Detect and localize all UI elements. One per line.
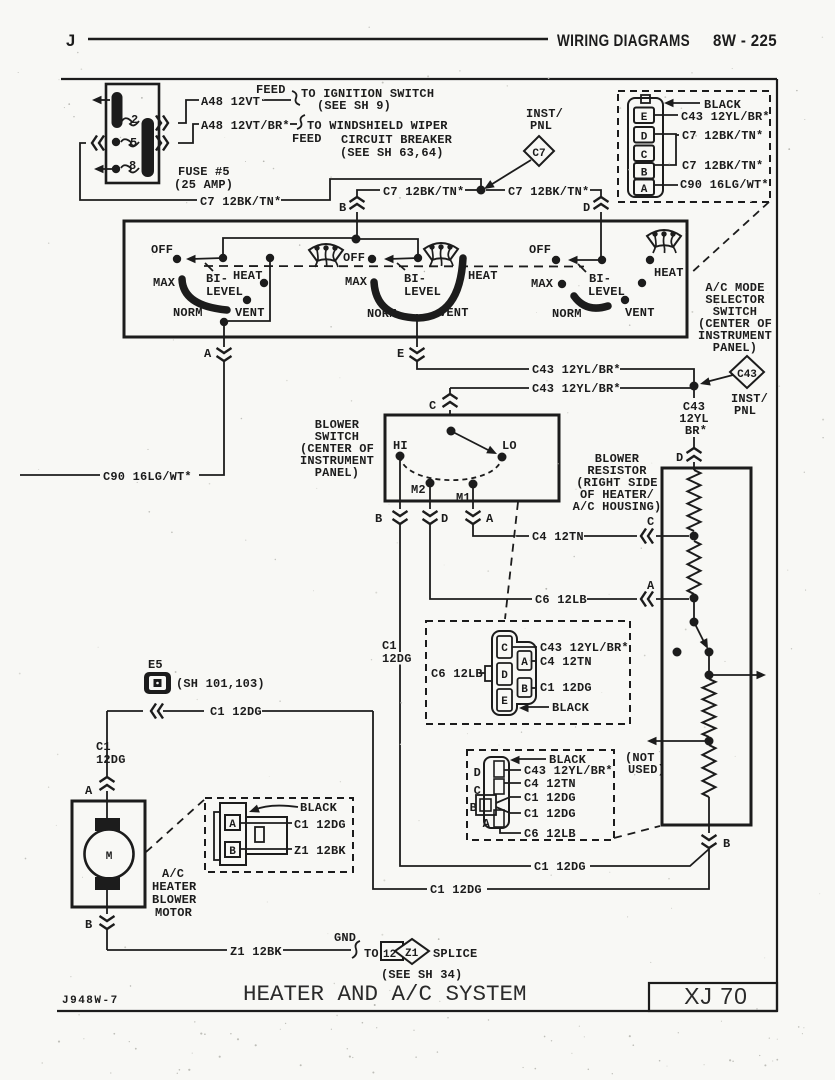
svg-text:8: 8 xyxy=(129,159,136,173)
wire C43 to D chevron xyxy=(693,437,695,449)
connector chevrons B (motor) xyxy=(100,916,115,929)
label B (motor) xyxy=(85,918,92,932)
sw1 label NORM xyxy=(173,306,203,320)
drawing number J948W-7 xyxy=(62,995,119,1007)
sw1 second contact dot xyxy=(266,254,274,262)
label C1 12DG (lower run) xyxy=(430,883,482,897)
svg-text:BI-: BI- xyxy=(206,272,228,286)
sw3 wiper blade arrow xyxy=(568,256,602,272)
resistor element 2 xyxy=(688,541,701,594)
svg-text:BI-: BI- xyxy=(404,272,426,286)
sw3 VENT contact dot xyxy=(621,296,629,304)
lead + label C1 12DG (box2 upper) xyxy=(496,791,576,805)
sw1 VENT contact dot xyxy=(243,296,251,304)
sw1 label OFF xyxy=(151,243,173,257)
resistor not-used contact dot xyxy=(673,648,682,657)
svg-text:D: D xyxy=(501,670,508,682)
svg-text:C7 12BK/TN*: C7 12BK/TN* xyxy=(200,195,281,209)
wire C90 left run xyxy=(20,474,100,476)
dashed wiper travel line xyxy=(204,265,584,268)
header page number 8W - 225 xyxy=(713,32,777,50)
label C90 16LG/WT* xyxy=(103,470,192,484)
svg-text:C: C xyxy=(641,150,648,162)
svg-text:C1: C1 xyxy=(96,740,111,754)
arrow HI tap out right xyxy=(709,671,766,679)
blower switch label LO xyxy=(502,439,517,453)
svg-text:FUSE #5: FUSE #5 xyxy=(178,165,230,179)
fuse connector chevrons pin 5 left xyxy=(92,136,104,151)
svg-text:C90 16LG/WT*: C90 16LG/WT* xyxy=(680,178,769,192)
lead + label C1 12DG (motor A) xyxy=(240,818,346,832)
sw3 wiper arc NORM xyxy=(574,296,608,308)
brace to wiper breaker xyxy=(297,115,305,129)
sw3 label HEAT xyxy=(654,266,684,280)
blower switch wiper arrow to LO xyxy=(451,431,499,458)
label C1 12DG (motor vertical) xyxy=(96,740,126,767)
label SPLICE xyxy=(433,947,477,961)
label BLACK (motor connector) xyxy=(248,801,338,816)
label A48 12VT xyxy=(201,95,260,109)
svg-text:MAX: MAX xyxy=(345,275,368,289)
wire C corner to blower switch xyxy=(449,388,451,394)
svg-text:C7 12BK/TN*: C7 12BK/TN* xyxy=(383,185,464,199)
label C7 12BK/TN* (B branch) xyxy=(383,185,464,199)
lead + label C1 12DG (box1) xyxy=(531,681,592,695)
svg-text:C1 12DG: C1 12DG xyxy=(540,681,592,695)
svg-text:HEAT: HEAT xyxy=(233,269,263,283)
motor brush top xyxy=(95,818,120,831)
resistor switch dot upper xyxy=(690,618,699,627)
blower switch M1 dot xyxy=(469,480,478,489)
A/C mode selector switch panel box xyxy=(124,221,687,337)
svg-text:TO: TO xyxy=(364,947,379,961)
lead + label C6 12LB (left) xyxy=(431,667,485,681)
blower connector body xyxy=(492,631,536,715)
vent door symbol middle xyxy=(424,243,458,266)
svg-text:C1 12DG: C1 12DG xyxy=(294,818,346,832)
label C7 12BK/TN* (left) xyxy=(200,195,281,209)
blower switch common dot xyxy=(447,427,456,436)
brace to ignition switch xyxy=(292,91,300,105)
blower resistor box xyxy=(662,468,751,825)
wire resistor B to upper C1 run xyxy=(590,849,709,866)
resistor element 4 xyxy=(703,745,716,797)
connector cell C xyxy=(634,146,654,163)
svg-text:D: D xyxy=(441,512,448,526)
svg-text:(SH 101,103): (SH 101,103) xyxy=(176,677,265,691)
wire D into resistor box xyxy=(693,462,695,470)
lead + label C90 16LG/WT* (cell A) xyxy=(654,178,769,192)
connector cell A xyxy=(634,180,654,197)
label CIRCUIT BREAKER xyxy=(341,133,453,147)
svg-text:5: 5 xyxy=(130,136,137,150)
svg-text:C43 12YL/BR*: C43 12YL/BR* xyxy=(532,363,621,377)
svg-text:BLOWER: BLOWER xyxy=(152,893,197,907)
sw1 OFF contact dot xyxy=(173,255,181,263)
sw2 pivot dot xyxy=(414,254,422,262)
label D (C7 branch) xyxy=(583,201,590,215)
resistor connector cell D xyxy=(474,761,504,780)
lead + label C43 12YL/BR* (box1) xyxy=(512,641,629,655)
brace splice xyxy=(352,941,360,958)
splice box 12 xyxy=(381,942,403,960)
svg-text:Z1 12BK: Z1 12BK xyxy=(230,945,282,959)
fuse terminal dot pin 8 xyxy=(112,165,120,173)
svg-text:MAX: MAX xyxy=(153,276,176,290)
label A/C MODE SELECTOR SWITCH xyxy=(698,281,772,355)
svg-text:B: B xyxy=(229,846,236,858)
label C4 12TN xyxy=(532,530,584,544)
dashed detail box instrument panel connector xyxy=(618,91,770,202)
svg-text:LO: LO xyxy=(502,439,517,453)
svg-text:MOTOR: MOTOR xyxy=(155,906,193,920)
label A (resistor) xyxy=(647,579,655,593)
junction dot C43 xyxy=(690,382,699,391)
svg-text:FEED: FEED xyxy=(256,83,286,97)
wire M2 down (D) xyxy=(429,487,431,509)
blower connector cell A xyxy=(518,651,532,670)
svg-text:NORM: NORM xyxy=(552,307,582,321)
resistor connector cell C xyxy=(474,779,504,798)
label C1 12DG (upper run) xyxy=(534,860,586,874)
bracket cells D and B xyxy=(654,134,676,165)
connector chevrons C (blower) xyxy=(443,394,458,407)
svg-text:C: C xyxy=(429,399,436,413)
sw1 wire contact loop xyxy=(228,260,270,321)
sw3 label OFF xyxy=(529,243,551,257)
motor body circle xyxy=(85,830,134,879)
dashed detail box blower switch connector xyxy=(426,621,630,724)
motor connector cell A xyxy=(225,815,240,831)
svg-text:A48 12VT: A48 12VT xyxy=(201,95,260,109)
connector chevrons C6 (resistor A) xyxy=(641,592,653,607)
svg-text:12: 12 xyxy=(383,949,396,961)
sw3 label NORM xyxy=(552,307,582,321)
label TO WINDSHIELD WIPER xyxy=(307,119,448,133)
svg-text:12DG: 12DG xyxy=(382,652,412,666)
svg-text:C1 12DG: C1 12DG xyxy=(210,705,262,719)
arrow C7 diamond to junction xyxy=(482,160,531,193)
wire C7 fuse to label run xyxy=(80,143,197,200)
svg-text:A: A xyxy=(641,184,648,196)
label TO IGNITION SWITCH xyxy=(301,87,434,101)
wire blade to HI tap xyxy=(708,656,710,671)
label Z1 12BK (run) xyxy=(230,945,282,959)
fuse element pin 2 xyxy=(122,113,139,127)
wire upper C1 run to blower B xyxy=(400,525,531,866)
sw2 bus junction dot xyxy=(352,235,361,244)
wire E to C43 line1 xyxy=(417,362,694,382)
svg-text:C1 12DG: C1 12DG xyxy=(524,791,576,805)
motor connector plug body xyxy=(246,817,287,854)
wire E5 corner down to motor xyxy=(106,711,108,776)
svg-text:NORM: NORM xyxy=(367,307,397,321)
resistor tap dot A xyxy=(690,594,699,603)
svg-text:C1 12DG: C1 12DG xyxy=(534,860,586,874)
connector chevrons C1 (E5) xyxy=(151,704,163,719)
sw1 label BI-LEVEL xyxy=(206,272,243,299)
svg-text:PANEL): PANEL) xyxy=(315,466,359,480)
svg-text:HEATER AND A/C SYSTEM: HEATER AND A/C SYSTEM xyxy=(243,981,527,1007)
sw1 pivot dot xyxy=(219,254,227,262)
svg-text:(25 AMP): (25 AMP) xyxy=(174,178,233,192)
svg-text:(SEE SH 34): (SEE SH 34) xyxy=(381,968,462,982)
label B (resistor exit) xyxy=(723,837,730,851)
label C7 12BK/TN* (cell D) xyxy=(676,129,763,143)
connector chevrons D (blower) xyxy=(423,511,438,524)
connector cell B xyxy=(634,163,654,180)
svg-text:BR*: BR* xyxy=(685,424,707,438)
svg-text:A: A xyxy=(229,819,236,831)
label (NOT USED) xyxy=(625,751,665,777)
svg-text:C43 12YL/BR*: C43 12YL/BR* xyxy=(532,382,621,396)
label A48 12VT/BR* xyxy=(201,119,290,133)
motor wire top xyxy=(106,801,108,820)
wire C43 junction down xyxy=(693,390,695,398)
svg-text:C1 12DG: C1 12DG xyxy=(524,807,576,821)
svg-text:WIRING DIAGRAMS: WIRING DIAGRAMS xyxy=(557,32,690,50)
blower switch LO dot xyxy=(498,453,507,462)
label E5 xyxy=(148,658,163,672)
svg-text:C: C xyxy=(501,643,508,655)
ground E5 symbol xyxy=(144,672,171,694)
motor label M xyxy=(106,851,113,863)
wire B branch corner xyxy=(357,190,380,198)
wire tap A down xyxy=(693,602,695,618)
sw1 wire pivot to bus xyxy=(223,238,356,256)
lead + label C4 12TN (box2) xyxy=(504,777,576,791)
lead + label C43 12YL/BR* (box2) xyxy=(504,764,613,778)
sw1 label MAX xyxy=(153,276,176,290)
wire resistor B to lower C1 run xyxy=(487,849,709,889)
label C6 12LB xyxy=(535,593,587,607)
label A/C HEATER BLOWER MOTOR xyxy=(152,867,197,920)
resistor connector cell A xyxy=(483,810,504,831)
svg-text:A/C HOUSING): A/C HOUSING) xyxy=(573,500,662,514)
label BLACK (box2) xyxy=(510,753,587,767)
wire E5 run right xyxy=(107,710,204,712)
header rule xyxy=(88,38,548,41)
motor connector body xyxy=(214,803,246,865)
label FEED (ignition) xyxy=(256,83,286,97)
connector symbol C43 diamond xyxy=(730,356,764,388)
sw3 OFF contact dot xyxy=(552,256,560,264)
svg-text:VENT: VENT xyxy=(625,306,655,320)
svg-text:FEED: FEED xyxy=(292,132,322,146)
svg-text:A48 12VT/BR*: A48 12VT/BR* xyxy=(201,119,290,133)
svg-text:C: C xyxy=(647,515,654,529)
label C (resistor) xyxy=(647,515,654,529)
dashed leader blower switch to connector detail xyxy=(505,502,518,619)
blower connector cell C xyxy=(497,636,512,658)
connector chevrons E (panel) xyxy=(410,348,425,361)
fuse element pin 8 xyxy=(121,159,139,173)
label C7 12BK/TN* (D branch) xyxy=(508,185,589,199)
label (SH 101,103) xyxy=(176,677,265,691)
svg-text:B: B xyxy=(85,918,92,932)
splice diamond Z1 xyxy=(383,939,429,964)
sw2 wire arc to E exit xyxy=(416,314,418,337)
sw2 label HEAT xyxy=(468,269,498,283)
wire motor B exit xyxy=(106,907,108,914)
sw1 bottom junction dot xyxy=(220,318,228,326)
svg-text:OFF: OFF xyxy=(529,243,551,257)
svg-text:LEVEL: LEVEL xyxy=(588,285,625,299)
svg-text:A: A xyxy=(483,817,491,831)
svg-text:C6 12LB: C6 12LB xyxy=(535,593,587,607)
blower switch HI dot xyxy=(396,452,405,461)
resistor switch dot lower xyxy=(705,648,714,657)
svg-text:M2: M2 xyxy=(411,483,426,497)
svg-text:C90 16LG/WT*: C90 16LG/WT* xyxy=(103,470,192,484)
label B (blower) xyxy=(375,512,382,526)
label BLOWER RESISTOR (RIGHT SIDE OF HEATER/ A/C HOUSING) xyxy=(573,452,662,514)
svg-text:D: D xyxy=(676,451,683,465)
header title WIRING DIAGRAMS xyxy=(557,32,690,50)
svg-text:TO WINDSHIELD WIPER: TO WINDSHIELD WIPER xyxy=(307,119,448,133)
sw3 label MAX xyxy=(531,277,554,291)
connector chevrons A (panel) xyxy=(217,348,232,361)
blower switch label M2 xyxy=(411,483,426,497)
sw3 HEAT contact dot xyxy=(646,256,654,264)
svg-text:B: B xyxy=(521,684,528,696)
connector chevrons B (resistor) xyxy=(702,835,717,848)
wire C4 into resistor xyxy=(656,535,689,537)
sw1 wiper arc MAX-NORM xyxy=(182,279,227,310)
connector chevrons B (C7) xyxy=(350,197,365,209)
label C7 12BK/TN* (cell B) xyxy=(682,159,763,173)
sw2 wiper blade arrow xyxy=(384,255,418,270)
blower connector cell B xyxy=(518,678,532,697)
label C43 12YL BR* (vertical) xyxy=(679,400,709,438)
svg-text:A/C: A/C xyxy=(162,867,184,881)
fuse connector chevrons pin 2 right xyxy=(156,116,168,131)
motor connector cell B xyxy=(225,842,240,858)
svg-text:J948W-7: J948W-7 xyxy=(62,995,119,1007)
border frame right xyxy=(776,79,778,1011)
wire resistor bottom exit xyxy=(708,797,710,833)
label D (blower) xyxy=(441,512,448,526)
connector chevrons C4 (resistor C) xyxy=(641,529,653,544)
label A (motor) xyxy=(85,784,93,798)
svg-text:C6 12LB: C6 12LB xyxy=(431,667,483,681)
svg-text:LEVEL: LEVEL xyxy=(206,285,243,299)
connector chevrons A (blower) xyxy=(466,511,481,524)
wire lower C1 run to E5 vertical xyxy=(373,711,427,889)
svg-text:BI-: BI- xyxy=(589,272,611,286)
wire B branch down to panel xyxy=(356,212,358,239)
fuse connector chevrons pin 5 right xyxy=(156,136,168,151)
svg-text:BLACK: BLACK xyxy=(552,701,590,715)
connector chevrons D (C7) xyxy=(594,197,609,209)
svg-text:OFF: OFF xyxy=(343,251,365,265)
blower connector cell E xyxy=(497,689,512,711)
label GND xyxy=(334,931,356,945)
resistor tap dot C xyxy=(690,532,699,541)
wire E exit from panel xyxy=(416,337,418,347)
dashed leader to selector switch xyxy=(690,202,769,274)
svg-text:D: D xyxy=(474,766,481,780)
resistor switch blade xyxy=(694,622,712,651)
sw3 MAX contact dot xyxy=(558,280,566,288)
connector chevrons D (resistor) xyxy=(687,448,702,461)
resistor element 1 xyxy=(688,470,701,531)
lead + label C4 12TN (box1) xyxy=(531,655,592,669)
title HEATER AND A/C SYSTEM xyxy=(243,981,527,1007)
fuse block bus bar right xyxy=(142,118,155,177)
junction dot C7 net xyxy=(477,186,486,195)
sw3 label VENT xyxy=(625,306,655,320)
svg-text:C1: C1 xyxy=(382,639,397,653)
svg-text:OFF: OFF xyxy=(151,243,173,257)
blower switch label M1 xyxy=(456,491,471,505)
svg-text:PNL: PNL xyxy=(530,119,552,133)
wire A48 12VT xyxy=(178,100,291,123)
svg-text:C7 12BK/TN*: C7 12BK/TN* xyxy=(508,185,589,199)
svg-text:C43 12YL/BR*: C43 12YL/BR* xyxy=(524,764,613,778)
svg-text:BLACK: BLACK xyxy=(300,801,338,815)
blower switch M2 dot xyxy=(426,479,435,488)
svg-text:C43 12YL/BR*: C43 12YL/BR* xyxy=(681,110,770,124)
wire C4 12TN xyxy=(473,525,637,536)
resistor connector body xyxy=(484,757,509,828)
connector chevrons B (blower) xyxy=(393,511,408,524)
svg-text:Z1 12BK: Z1 12BK xyxy=(294,844,346,858)
blower switch box xyxy=(385,415,559,501)
svg-text:B: B xyxy=(339,201,346,215)
arrow tap out left (not used) xyxy=(647,737,709,745)
wire M1 down (A) xyxy=(472,488,474,509)
svg-text:B: B xyxy=(641,168,648,180)
connector cell E xyxy=(634,108,654,125)
svg-text:PNL: PNL xyxy=(734,404,756,418)
arrow C43 diamond to junction xyxy=(699,375,733,388)
svg-text:M: M xyxy=(106,851,113,863)
title block box XJ 70 xyxy=(649,983,777,1011)
dashed detail box motor connector xyxy=(205,798,353,872)
svg-text:(SEE SH 9): (SEE SH 9) xyxy=(317,99,391,113)
connector chevrons A (motor) xyxy=(100,777,115,790)
sw3 mid contact dot xyxy=(638,279,646,287)
svg-text:E: E xyxy=(641,112,648,124)
svg-text:8W - 225: 8W - 225 xyxy=(713,32,777,50)
sw2 label OFF xyxy=(343,251,365,265)
svg-text:A: A xyxy=(521,657,528,669)
label (SEE SH 34) xyxy=(381,968,462,982)
vent door symbol right xyxy=(647,230,681,253)
label FEED (wiper) xyxy=(292,132,322,146)
svg-text:A: A xyxy=(204,347,212,361)
label D (resistor entry) xyxy=(676,451,683,465)
svg-text:C7 12BK/TN*: C7 12BK/TN* xyxy=(682,159,763,173)
label BLOWER SWITCH (CENTER OF INSTRUMENT PANEL) xyxy=(300,418,374,480)
label C1 12DG (blower B vertical) xyxy=(381,639,413,666)
fuse block housing xyxy=(106,84,159,183)
svg-text:A: A xyxy=(647,579,655,593)
wire A down to C90 run xyxy=(199,362,224,475)
svg-text:J: J xyxy=(66,32,76,50)
sw1 label HEAT xyxy=(233,269,263,283)
fuse feed arrow bottom left xyxy=(94,165,112,173)
svg-text:HI: HI xyxy=(393,439,408,453)
svg-text:VENT: VENT xyxy=(235,306,265,320)
svg-text:LEVEL: LEVEL xyxy=(404,285,441,299)
svg-text:XJ 70: XJ 70 xyxy=(684,983,748,1009)
label C43 12YL/BR* (line1) xyxy=(532,363,621,377)
connector body (instrument panel) xyxy=(628,95,663,197)
svg-text:C: C xyxy=(474,784,481,798)
dashed leader motor to connector detail xyxy=(146,799,205,852)
